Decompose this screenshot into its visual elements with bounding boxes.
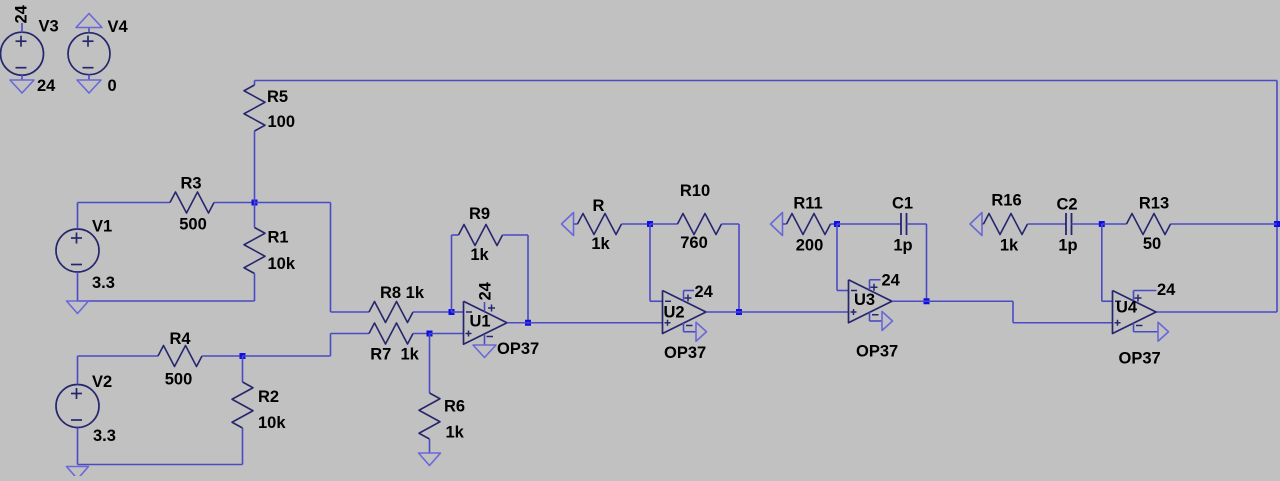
- wire R right lead: [622, 223, 651, 225]
- junction R9/U1 output: [525, 320, 531, 326]
- svg-text:24: 24: [882, 272, 901, 290]
- voltage source V3: [1, 32, 44, 75]
- wire U2 output to U3 non-inverting input: [706, 311, 849, 313]
- svg-text:1k: 1k: [591, 235, 610, 253]
- node B junction R4/R2: [240, 353, 246, 359]
- junction R8/R9/U1 inverting input: [449, 309, 455, 315]
- resistor R: [578, 214, 622, 235]
- wire C1 right lead: [907, 223, 927, 225]
- flag net R left arrow: [562, 213, 574, 236]
- resistor R3: [170, 192, 214, 213]
- wire R4 right lead to node B: [202, 355, 243, 357]
- U4 V+ pin stub: [1133, 291, 1135, 302]
- svg-text:R8 1k: R8 1k: [380, 284, 425, 302]
- flag at U2 V- pin: [696, 322, 707, 341]
- svg-text:10k: 10k: [268, 255, 296, 273]
- wire R10 right vertical to U2 output: [738, 224, 740, 312]
- U3 V- pin stub: [869, 312, 871, 321]
- wire V2 top stub: [77, 356, 79, 385]
- wire R5 bottom to node A: [254, 131, 256, 203]
- wire R11 left lead: [783, 223, 787, 225]
- svg-text:OP37: OP37: [664, 344, 706, 362]
- resistor R4: [158, 346, 202, 367]
- flag at U3 V- pin: [882, 312, 893, 331]
- svg-text:50: 50: [1143, 235, 1161, 253]
- node A junction R3/R5/R1: [252, 200, 258, 206]
- wire corner down to R8 level: [330, 203, 332, 313]
- wire R2 top lead: [242, 356, 244, 382]
- svg-text:U2: U2: [663, 304, 684, 322]
- wire R10 right lead: [722, 223, 740, 225]
- op-amp U1: [464, 301, 508, 344]
- wire R left lead: [574, 223, 578, 225]
- U4 V+ plus mark: [1135, 297, 1142, 299]
- wire R16 left lead: [982, 223, 984, 225]
- junction right edge / R13: [1274, 221, 1280, 227]
- wire to U4 inverting input: [1102, 300, 1113, 302]
- flag net 0 below V4: [77, 80, 101, 93]
- wire V2 bottom rail: [78, 464, 243, 466]
- flag net 24 below V3: [10, 80, 34, 93]
- resistor R5: [244, 85, 265, 131]
- wire R1 top lead: [254, 203, 256, 228]
- junction R7/R6/U1 non-inverting input: [427, 331, 433, 337]
- voltage source V2: [56, 385, 99, 428]
- wire R2 bottom lead: [242, 428, 244, 465]
- wire to U2 inverting input: [650, 300, 663, 302]
- wire V2 top to R4: [78, 355, 159, 357]
- wire R6 bottom lead: [429, 439, 431, 453]
- wire R6 top lead: [429, 334, 431, 394]
- wire R8 left lead: [331, 311, 370, 313]
- resistor R13: [1127, 214, 1171, 235]
- wire junction to U1 non-inverting input: [430, 333, 464, 335]
- svg-text:R5: R5: [267, 88, 288, 106]
- wire V3 top stub: [21, 23, 23, 33]
- svg-text:R2: R2: [258, 388, 279, 406]
- svg-text:100: 100: [268, 113, 296, 131]
- U4 V- pin stub: [1133, 323, 1135, 332]
- resistor R16: [984, 214, 1028, 235]
- svg-text:1k: 1k: [1000, 237, 1019, 255]
- svg-text:OP37: OP37: [856, 343, 898, 361]
- capacitor C1: [900, 213, 902, 235]
- svg-text:24: 24: [37, 77, 56, 95]
- wire top feedback row from R5 to right edge: [255, 80, 1278, 82]
- svg-text:R4: R4: [169, 330, 191, 348]
- wire U1 output to U2 non-inverting input: [507, 322, 663, 324]
- svg-text:R: R: [593, 197, 605, 215]
- wire R11 right lead: [831, 223, 838, 225]
- resistor R8: [369, 302, 413, 323]
- flag net R16 left arrow: [970, 213, 982, 236]
- junction C2/R13/U4 inverting input: [1099, 221, 1105, 227]
- wire R9 left vertical from junction: [451, 235, 453, 312]
- U3 V+ pin stub: [869, 280, 871, 291]
- wire R16 right lead: [1028, 223, 1067, 225]
- wire junction down to U4 inverting level: [1101, 224, 1103, 301]
- svg-text:500: 500: [179, 216, 207, 234]
- svg-text:OP37: OP37: [497, 340, 539, 358]
- svg-text:U1: U1: [469, 313, 490, 331]
- wire node B to corner: [243, 355, 331, 357]
- wire to U4 non-inverting input: [1013, 322, 1113, 324]
- U1 V+ plus mark: [488, 307, 495, 309]
- svg-text:R13: R13: [1139, 195, 1169, 213]
- svg-text:R7 1k: R7 1k: [370, 346, 419, 364]
- resistor R10: [678, 214, 722, 235]
- wire R13 left lead: [1102, 223, 1127, 225]
- resistor R9: [459, 225, 503, 246]
- wire R10 left lead: [650, 223, 678, 225]
- U3 V- minus mark: [872, 314, 879, 316]
- junction R/R10/U2 inverting input: [647, 221, 653, 227]
- svg-text:C1: C1: [892, 195, 913, 213]
- svg-text:1k: 1k: [446, 424, 465, 442]
- wire right edge vertical (feedback): [1276, 81, 1278, 313]
- wire C1 left lead: [837, 223, 901, 225]
- op-amp U2: [663, 291, 707, 334]
- wire corner up to R7 level: [330, 334, 332, 357]
- svg-text:24: 24: [477, 281, 495, 300]
- wire R7 right lead: [413, 333, 430, 335]
- svg-text:R1: R1: [268, 229, 289, 247]
- wire V4 bottom stub: [88, 75, 90, 81]
- wire R5 top lead from feedback row: [254, 81, 256, 86]
- svg-text:R16: R16: [991, 192, 1021, 210]
- wire R9 right vertical to U1 output: [527, 235, 529, 323]
- svg-text:24: 24: [13, 4, 31, 23]
- wire V1 bottom rail: [78, 300, 255, 302]
- svg-text:U4: U4: [1116, 299, 1138, 317]
- wire V2 bottom stub: [77, 428, 79, 465]
- svg-text:760: 760: [680, 234, 708, 252]
- svg-text:200: 200: [796, 237, 824, 255]
- U3 V+ plus mark: [871, 286, 878, 288]
- wire V1 top stub: [77, 203, 79, 230]
- svg-text:1k: 1k: [470, 246, 489, 264]
- voltage source V4: [68, 33, 110, 75]
- U2 V- minus mark: [686, 325, 693, 327]
- wire V1 top to R3: [78, 202, 171, 204]
- U1 V+ pin tick: [484, 302, 486, 312]
- wire R9 left lead: [452, 234, 459, 236]
- svg-text:U3: U3: [854, 291, 875, 309]
- svg-text:0: 0: [108, 77, 117, 95]
- resistor R6: [419, 393, 440, 439]
- svg-text:24: 24: [695, 283, 714, 301]
- wire node A to corner: [255, 202, 331, 204]
- U4 V- minus mark: [1136, 325, 1143, 327]
- svg-text:V2: V2: [92, 373, 112, 391]
- wire R9 right lead: [503, 234, 529, 236]
- resistor R1: [244, 228, 265, 274]
- svg-text:3.3: 3.3: [92, 274, 115, 292]
- wire R7 left lead: [331, 333, 370, 335]
- resistor R7: [369, 323, 413, 344]
- svg-text:V4: V4: [108, 18, 129, 36]
- op-amp U4: [1113, 291, 1157, 334]
- wire R3 right lead to node A: [214, 202, 255, 204]
- svg-text:10k: 10k: [258, 414, 286, 432]
- wire R1 bottom lead: [254, 274, 256, 302]
- wire C1 right vertical to U3 output: [926, 224, 928, 301]
- svg-text:OP37: OP37: [1119, 350, 1161, 368]
- resistor R11: [787, 214, 831, 235]
- wire V1 bottom stub: [77, 272, 79, 301]
- U1 V- minus mark: [487, 336, 494, 338]
- svg-text:24: 24: [1157, 281, 1176, 299]
- junction R11/C1/U3 inverting input: [834, 221, 840, 227]
- junction C1/U3 output: [924, 298, 930, 304]
- svg-text:R11: R11: [793, 195, 822, 213]
- svg-text:V3: V3: [39, 18, 59, 36]
- resistor R2: [232, 382, 253, 428]
- wire junction down to U3 inverting level: [836, 224, 838, 291]
- wire junction to U1 inverting input: [452, 311, 464, 313]
- wire V4 top stub: [88, 28, 90, 33]
- wire junction down to U2 inverting level: [649, 224, 651, 301]
- U2 V- pin stub: [683, 323, 685, 332]
- svg-text:C2: C2: [1056, 196, 1077, 214]
- flag at U4 V- pin: [1158, 322, 1169, 341]
- svg-text:3.3: 3.3: [93, 427, 116, 445]
- svg-text:R3: R3: [180, 175, 201, 193]
- wire to U3 inverting input: [837, 290, 849, 292]
- capacitor C2: [1065, 213, 1067, 235]
- wire step down: [1012, 301, 1014, 323]
- svg-text:R10: R10: [680, 182, 710, 200]
- flag net R11 left arrow: [771, 213, 783, 236]
- wire R8 right lead: [413, 311, 452, 313]
- svg-text:1p: 1p: [893, 237, 912, 255]
- wire U4 output to right edge: [1156, 311, 1277, 313]
- wire C2 right lead: [1072, 223, 1102, 225]
- ground flag below R6: [419, 453, 441, 466]
- U2 V+ pin stub: [683, 291, 685, 302]
- ground flag below V2: [67, 467, 89, 480]
- svg-text:V1: V1: [92, 218, 112, 236]
- U1 V- pin tick: [484, 334, 486, 345]
- flag up above V4: [76, 14, 102, 28]
- wire U3 output run: [892, 300, 1013, 302]
- wire R13 right lead to right edge: [1171, 223, 1278, 225]
- ground flag below V1: [67, 301, 89, 314]
- wire V3 bottom stub: [21, 75, 23, 80]
- svg-text:500: 500: [165, 371, 193, 389]
- ground flag below U1: [473, 345, 496, 358]
- svg-text:R9: R9: [469, 205, 490, 223]
- svg-text:1p: 1p: [1058, 237, 1077, 255]
- U2 V+ plus mark: [685, 297, 692, 299]
- junction R10/U2 output: [736, 309, 742, 315]
- svg-text:R6: R6: [444, 398, 465, 416]
- voltage source V1: [56, 229, 99, 272]
- op-amp U3: [849, 280, 893, 323]
